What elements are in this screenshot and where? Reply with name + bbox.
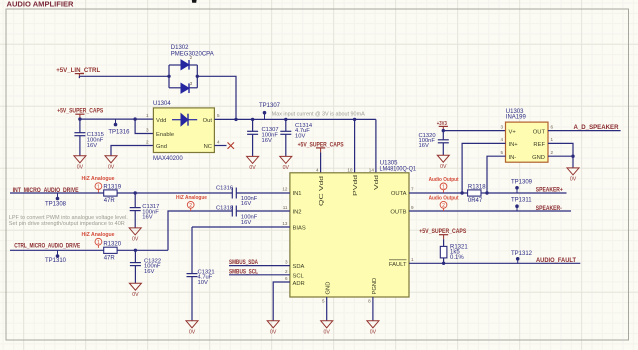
value 0R47 (468, 198, 483, 204)
pin name GND (rotated) (326, 282, 332, 295)
wire FAULT to AUDIO_FAULT (409, 262, 580, 264)
ground below C1307 (247, 156, 259, 171)
svg-text:PMEG3020CPA: PMEG3020CPA (171, 52, 214, 58)
capacitor C1318 (IN2 coupling) (232, 206, 236, 217)
wire OUTA to SPEAKER+ (409, 192, 567, 194)
svg-text:LM48100Q-Q1: LM48100Q-Q1 (380, 167, 417, 173)
wire +3V3 to V+ (443, 130, 505, 132)
capacitor C1307 (247, 119, 258, 156)
pin name SCL (293, 273, 305, 279)
wire U1305 GND pin to ground (326, 297, 328, 321)
svg-text:+5V_SUPER_CAPS: +5V_SUPER_CAPS (419, 228, 466, 235)
pin name BIAS (293, 226, 306, 232)
svg-text:+5V_SUPER_CAPS: +5V_SUPER_CAPS (298, 141, 344, 148)
pin number 3 (V+) (500, 124, 503, 129)
svg-text:0V: 0V (440, 164, 447, 170)
svg-text:TP1310: TP1310 (45, 258, 67, 264)
amplifier U1305 body (290, 173, 409, 297)
svg-text:TP1312: TP1312 (511, 251, 533, 257)
label TP1309 (511, 179, 533, 185)
svg-text:16V: 16V (142, 215, 152, 221)
junction C1307 (251, 118, 254, 121)
svg-text:10V: 10V (295, 134, 305, 140)
svg-text:IN-: IN- (509, 155, 517, 161)
svg-text:PVdd: PVdd (353, 175, 359, 196)
svg-text:BIAS: BIAS (293, 226, 306, 232)
svg-text:2: 2 (551, 150, 554, 155)
svg-text:Gnd: Gnd (156, 144, 167, 150)
pin number 3 (D1302 bottom) (190, 81, 193, 86)
svg-text:AUDIO AMPLIFIER: AUDIO AMPLIFIER (7, 2, 74, 9)
svg-text:6: 6 (551, 124, 554, 129)
pin name IN1 (293, 191, 302, 197)
pin number 2 (U1304 Gnd) (146, 140, 149, 145)
svg-text:16V: 16V (241, 220, 251, 226)
value 0.1% (450, 255, 464, 261)
svg-text:16V: 16V (241, 201, 251, 207)
wire R1320 to IN2 riser (117, 211, 232, 250)
pin number 2 (GND) (551, 150, 554, 155)
resistor R1318 (468, 190, 481, 196)
svg-text:SCL: SCL (293, 273, 305, 279)
svg-text:INA199: INA199 (506, 114, 527, 120)
svg-text:1: 1 (97, 240, 100, 246)
capacitor C1316 (IN1 coupling) (232, 188, 236, 199)
pin number 11 (283, 205, 288, 210)
pin number 5 (IN-) (500, 150, 503, 155)
pin number 1 (REF) (551, 137, 554, 142)
wire rail U1304 Out to U1305 Vdd pin14 (214, 119, 376, 172)
svg-text:47R: 47R (104, 255, 116, 261)
label C1307 (262, 127, 279, 144)
capacitor C1315 (74, 119, 85, 156)
ground below C1317 (129, 228, 141, 243)
svg-text:0V: 0V (283, 165, 290, 171)
designator U1305 (380, 161, 398, 167)
wire IN+ sense (462, 143, 505, 193)
ground below U1303 (567, 168, 579, 183)
pin number 13 (282, 221, 288, 226)
pin number 6 (OUT) (551, 124, 554, 129)
pin number 4 (IN+) (500, 137, 503, 142)
value LM48100Q-Q1 (380, 167, 417, 173)
junction REF/GND (571, 155, 574, 158)
wire GND (U1303) to ground (548, 156, 573, 168)
wire OUT to A_D_SPEAKER (548, 130, 621, 132)
svg-text:16V: 16V (262, 138, 272, 144)
svg-text:0R47: 0R47 (468, 198, 483, 204)
test point TP1308 (56, 193, 60, 200)
wire power to U1305 pin4 (320, 152, 322, 172)
pin name QC Vdd (rotated) (319, 176, 325, 206)
svg-text:0V: 0V (324, 329, 331, 335)
svg-text:3: 3 (190, 81, 193, 86)
svg-text:0V: 0V (270, 329, 277, 335)
value 100nF (C1318) (241, 215, 258, 226)
svg-text:0V: 0V (132, 237, 139, 243)
wire IN- sense (487, 156, 506, 193)
power port +3V3 (437, 121, 448, 131)
svg-text:HiZ Analogue: HiZ Analogue (176, 195, 207, 201)
svg-text:6: 6 (285, 276, 288, 281)
ground below C1315 (74, 156, 86, 171)
pin number 2 (D1302 top) (190, 55, 193, 60)
value INA199 (506, 114, 527, 120)
designator D1302 (171, 45, 189, 51)
svg-text:AUDIO_FAULT: AUDIO_FAULT (536, 257, 576, 264)
capacitor C1317 (130, 193, 141, 228)
pin number 12 (282, 187, 288, 192)
svg-text:TP1311: TP1311 (511, 198, 532, 204)
svg-text:Audio Output: Audio Output (429, 195, 459, 201)
svg-text:Set pin drive strength/output: Set pin drive strength/output impedance … (9, 221, 125, 227)
label TP1310 (45, 258, 67, 264)
resistor R1321 (pull-up) (440, 239, 447, 263)
svg-text:NC: NC (204, 144, 212, 150)
svg-text:V+: V+ (509, 129, 517, 135)
pin NC stub (214, 145, 226, 147)
wire REF to ground (548, 143, 573, 156)
svg-text:+5V_LIN_CTRL: +5V_LIN_CTRL (56, 67, 100, 74)
label TP1311 (511, 198, 532, 204)
svg-text:4: 4 (217, 140, 220, 145)
node D1302 anode junction (167, 75, 170, 78)
directive Audio Output (OUTB) (429, 195, 459, 211)
svg-text:4: 4 (500, 137, 503, 142)
no-ERC cross on NC pin (228, 142, 235, 149)
svg-text:SPEAKER+: SPEAKER+ (536, 187, 563, 194)
svg-text:SPEAKER-: SPEAKER- (536, 205, 562, 212)
svg-text:SDA: SDA (293, 264, 305, 270)
svg-text:TP1307: TP1307 (259, 103, 281, 109)
net label SMBUS_SCL (229, 268, 258, 275)
label C1320 (419, 133, 436, 149)
svg-text:47R: 47R (104, 198, 116, 204)
pin name Gnd (156, 144, 167, 150)
internal ideal-diode symbol of U1304 (172, 114, 197, 126)
wire +5V_LIN_CTRL to D1302 (79, 76, 169, 78)
value 47R (104, 198, 116, 204)
test point TP1310 (56, 250, 60, 257)
pin number 4 (U1304 NC) (217, 140, 220, 145)
svg-text:0V: 0V (132, 292, 139, 298)
junction C1314 (284, 118, 287, 121)
svg-text:TP1308: TP1308 (45, 202, 67, 208)
junction IN- sense tap (485, 191, 488, 194)
svg-text:0V: 0V (108, 164, 115, 170)
svg-text:4: 4 (316, 167, 319, 172)
svg-text:1: 1 (442, 185, 445, 191)
pin name OUTA (391, 191, 407, 197)
svg-text:12: 12 (282, 187, 288, 192)
svg-text:CTRL_MICRO_AUDIO_DRIVE: CTRL_MICRO_AUDIO_DRIVE (14, 242, 80, 249)
ground below C1320 (437, 155, 449, 170)
wire U1304 Gnd to ground (111, 146, 153, 156)
svg-text:3: 3 (500, 124, 503, 129)
label C1315 (87, 132, 104, 149)
junction C1322 tap (134, 249, 137, 252)
svg-text:U1304: U1304 (153, 101, 171, 107)
svg-text:OUT: OUT (533, 129, 546, 135)
value MAX40200 (153, 156, 183, 162)
node D1302 cathode junction (196, 75, 199, 78)
svg-text:0V: 0V (249, 165, 256, 171)
pin number 7 (411, 187, 414, 192)
svg-text:OUTA: OUTA (391, 191, 407, 197)
svg-text:16V: 16V (144, 269, 154, 275)
svg-text:GND: GND (326, 282, 332, 295)
label C1322 (144, 258, 161, 274)
power port +5V_SUPER_CAPS (left) (57, 107, 103, 118)
pin name GND (U1303) (532, 155, 545, 161)
junction C1315 tap (78, 117, 81, 120)
designator U1303 (506, 109, 524, 115)
svg-text:2: 2 (285, 269, 288, 274)
wire CTRL drive to R1320 (10, 249, 104, 251)
capacitor C1320 (438, 131, 449, 156)
ground below PGND pin (367, 321, 379, 336)
svg-text:2: 2 (442, 203, 445, 209)
capacitor C1321 (187, 274, 198, 321)
svg-text:HiZ Analogue: HiZ Analogue (82, 232, 115, 238)
wire U1305 PGND pin to ground (372, 297, 374, 321)
pin number 1 (U1304 Vdd) (146, 113, 149, 118)
svg-text:R1318: R1318 (468, 184, 486, 190)
label C1314 (295, 123, 313, 140)
junction Enable branch (133, 117, 136, 120)
svg-text:MAX40200: MAX40200 (153, 156, 183, 162)
junction IN+ sense tap (460, 191, 463, 194)
ground below GND pin (321, 321, 333, 336)
svg-text:Vdd: Vdd (374, 175, 380, 190)
value 1k5 (450, 250, 460, 256)
pin name Out (203, 118, 213, 124)
ground below ADR (267, 321, 279, 336)
svg-text:R1320: R1320 (103, 242, 121, 248)
svg-text:2: 2 (190, 55, 193, 60)
diode D1302 PMEG3020CPA (169, 60, 197, 93)
svg-text:IN2: IN2 (293, 210, 302, 216)
svg-text:5: 5 (322, 298, 325, 303)
svg-text:Vdd: Vdd (156, 118, 166, 124)
svg-text:1: 1 (146, 113, 149, 118)
svg-text:1: 1 (551, 137, 554, 142)
label TP1307 (259, 103, 281, 109)
pin number 9 (411, 205, 414, 210)
power port +5V_SUPER_CAPS (U1305) (298, 141, 344, 152)
svg-text:3: 3 (285, 260, 288, 265)
wire BIAS to C1321 (192, 227, 290, 274)
svg-text:Enable: Enable (156, 132, 174, 138)
wire ADR to ground (273, 282, 290, 321)
svg-text:0V: 0V (189, 329, 196, 335)
pin name REF (533, 142, 545, 148)
svg-text:REF: REF (533, 142, 545, 148)
pin name IN- (509, 155, 517, 161)
svg-text:3: 3 (146, 128, 149, 133)
designator C1316 (216, 185, 233, 191)
svg-text:IN+: IN+ (509, 142, 519, 148)
svg-text:1: 1 (97, 184, 100, 190)
value 100nF (C1316) (241, 196, 258, 207)
net label SPEAKER+ (536, 187, 563, 194)
pin name Enable (156, 132, 174, 138)
comment max input current (272, 112, 365, 118)
resistor R1320 (104, 247, 117, 253)
pin number 4 (U1305) (316, 167, 319, 172)
pin name Vdd (156, 118, 166, 124)
svg-text:IN1: IN1 (293, 191, 302, 197)
capacitor C1322 (130, 250, 141, 283)
wire D1302 output to rail (197, 76, 236, 119)
svg-text:A_D_SPEAKER: A_D_SPEAKER (574, 124, 620, 131)
wire C1318 to IN2 (236, 210, 290, 212)
svg-text:FAULT: FAULT (389, 262, 407, 268)
pin name IN+ (509, 142, 519, 148)
label TP1316 (108, 129, 130, 135)
pin name OUT (533, 129, 546, 135)
svg-text:1: 1 (411, 257, 414, 262)
pin number 10 (U1305) (347, 167, 353, 172)
comment LPF (9, 215, 128, 227)
svg-text:0V: 0V (370, 329, 377, 335)
power port +5V_LIN_CTRL (56, 67, 100, 78)
svg-text:Max input current @ 3V is abou: Max input current @ 3V is about 90mA (272, 112, 365, 118)
pin name IN2 (293, 210, 302, 216)
pin name SDA (293, 264, 305, 270)
junction C1317 tap (134, 191, 137, 194)
svg-text:TP1316: TP1316 (108, 129, 130, 135)
svg-text:Audio Output: Audio Output (429, 177, 459, 183)
svg-text:Out: Out (203, 118, 213, 124)
svg-text:0V: 0V (77, 164, 84, 170)
test point TP1316 (114, 119, 118, 126)
svg-text:OUTB: OUTB (390, 210, 406, 216)
ground below C1314 (280, 156, 292, 171)
svg-text:C1318: C1318 (216, 205, 233, 211)
pin name PGND (rotated) (372, 278, 378, 295)
wire rail to U1305 PVdd pin10 (354, 119, 356, 172)
wire +5V rail to U1304 Vdd (80, 118, 153, 120)
ground below C1322 (129, 283, 141, 298)
pin number 8 (368, 298, 371, 303)
pin name PVdd (rotated) (353, 175, 359, 196)
junction pin10 branch (353, 118, 356, 121)
test point TP1312 (516, 257, 520, 263)
net label SMBUS_SDA (229, 259, 258, 266)
wire R1319 to C1316 (117, 192, 232, 194)
svg-text:TP1309: TP1309 (511, 179, 533, 185)
svg-text:QC Vdd: QC Vdd (319, 176, 325, 206)
current-sense amp U1303 body (506, 122, 549, 162)
pin number 1 (411, 257, 414, 262)
pin name FAULT (389, 260, 407, 268)
net label AUDIO_FAULT (536, 257, 576, 264)
designator R1320 (103, 242, 121, 248)
junction +3V3/C1320 (442, 129, 445, 132)
pin number 2 (285, 269, 288, 274)
test point TP1311 (515, 204, 519, 211)
directive HiZ Analogue (IN2) (176, 195, 207, 211)
pin number 5 (U1304 Out) (217, 113, 220, 118)
svg-text:GND: GND (532, 155, 545, 161)
wire INT drive to R1319 (10, 192, 104, 194)
svg-text:HiZ Analogue: HiZ Analogue (82, 176, 115, 182)
pin name ADR (293, 281, 305, 287)
value 47R (R1320) (104, 255, 116, 261)
svg-text:16V: 16V (419, 143, 429, 149)
designator R1321 (450, 245, 468, 251)
svg-text:ADR: ADR (293, 281, 305, 287)
svg-text:0V: 0V (570, 177, 577, 183)
svg-text:PGND: PGND (372, 278, 378, 295)
svg-text:7: 7 (411, 187, 414, 192)
directive HiZ Analogue (R1319) (82, 176, 115, 193)
svg-text:C1316: C1316 (216, 185, 233, 191)
svg-text:2: 2 (146, 140, 149, 145)
net label INT_MICRO_AUDIO_DRIVE (13, 187, 79, 194)
wire SCL (229, 274, 290, 276)
label TP1308 (45, 202, 67, 208)
svg-text:10V: 10V (198, 280, 208, 286)
label C1321 (198, 269, 215, 285)
power port +5V_SUPER_CAPS (R1321) (419, 228, 466, 239)
svg-text:11: 11 (283, 205, 288, 210)
value PMEG3020CPA (171, 52, 214, 58)
label TP1312 (511, 251, 533, 257)
junction rail/D1302 (234, 118, 237, 121)
svg-text:10: 10 (347, 167, 353, 172)
pin number 3 (U1304 Enable) (146, 128, 149, 133)
wire Enable branch (135, 119, 153, 133)
designator C1318 (216, 205, 233, 211)
resistor R1319 (104, 190, 117, 196)
svg-text:R1319: R1319 (103, 184, 121, 190)
svg-text:13: 13 (282, 221, 288, 226)
svg-text:5: 5 (500, 150, 503, 155)
pin number 3 (285, 260, 288, 265)
designator U1304 (153, 101, 171, 107)
svg-text:8: 8 (368, 298, 371, 303)
wire C1316 to IN1 (236, 192, 290, 194)
svg-text:16V: 16V (87, 143, 97, 149)
wire SDA (229, 265, 290, 267)
svg-text:5: 5 (217, 113, 220, 118)
wire OUTB to SPEAKER- (409, 210, 571, 212)
label C1317 (142, 204, 159, 220)
pin number 14 (U1305) (369, 167, 375, 172)
svg-text:+5V_SUPER_CAPS: +5V_SUPER_CAPS (57, 107, 103, 114)
junction R1321/FAULT (442, 262, 445, 265)
test point TP1307 (263, 111, 267, 120)
svg-text:9: 9 (411, 205, 414, 210)
capacitor C1314 (280, 119, 291, 156)
ground below C1321 (186, 321, 198, 336)
pin name OUTB (390, 210, 406, 216)
net label SPEAKER- (536, 205, 562, 212)
test point TP1309 (515, 186, 519, 193)
directive HiZ Analogue (R1320) (82, 232, 115, 248)
svg-text:14: 14 (369, 167, 375, 172)
designator R1318 (468, 184, 486, 190)
pin name Vdd (rotated) (374, 175, 380, 190)
net label CTRL_MICRO_AUDIO_DRIVE (14, 242, 80, 249)
net label A_D_SPEAKER (574, 124, 620, 131)
cropped text fragment at top edge (192, 0, 197, 3)
ground below U1304 Gnd (105, 156, 117, 171)
svg-text:D1302: D1302 (171, 45, 189, 51)
pin number 5 (322, 298, 325, 303)
